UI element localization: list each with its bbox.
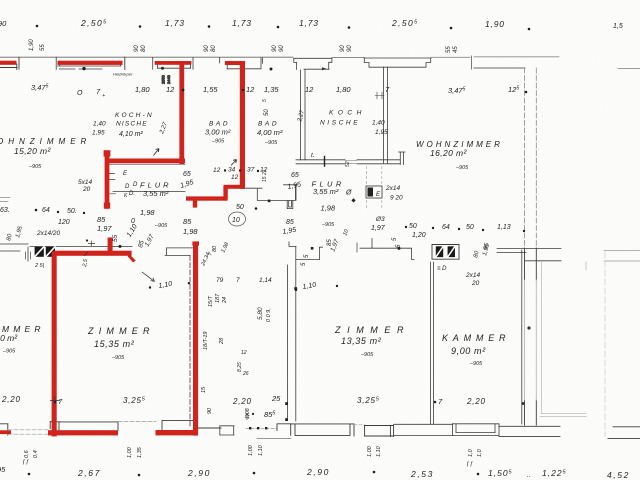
svg-text:55: 55	[40, 44, 46, 51]
small tick pair at 2,5 window	[84, 252, 88, 256]
svg-text:79: 79	[216, 277, 224, 284]
svg-text:1,73: 1,73	[232, 18, 252, 28]
svg-text:90: 90	[204, 45, 210, 52]
svg-text:KOCH-N: KOCH-N	[115, 112, 154, 119]
FLUR right top wall	[296, 160, 400, 164]
svg-text:15/T: 15/T	[208, 295, 214, 307]
svg-text:1,80: 1,80	[336, 85, 351, 94]
red FLUR left wall bottom blob	[104, 203, 110, 209]
red window bar W2	[58, 61, 123, 65]
bottom-left corner wall	[0, 424, 8, 435]
svg-text:85: 85	[327, 239, 333, 246]
small arrow tick above red step	[231, 160, 237, 166]
right vertical wall inner line	[535, 68, 537, 248]
svg-text:90: 90	[279, 45, 285, 52]
svg-text:85: 85	[183, 217, 192, 226]
window W6 dim tick	[375, 92, 384, 99]
svg-text:65: 65	[183, 171, 191, 178]
KAMMER door tick left	[356, 243, 358, 252]
svg-text:90: 90	[272, 45, 278, 52]
svg-text:90: 90	[340, 45, 346, 52]
svg-text:1,73: 1,73	[299, 18, 319, 28]
svg-text:187: 187	[215, 293, 221, 303]
svg-text:16,20 m²: 16,20 m²	[430, 148, 468, 158]
svg-text:2x14/20: 2x14/20	[36, 230, 61, 237]
red ZIMMER top wall	[54, 251, 132, 256]
svg-text:..: ..	[527, 472, 531, 479]
svg-text:–905: –905	[469, 361, 483, 367]
svg-text:1,98: 1,98	[140, 208, 155, 217]
svg-text:3,55 m²: 3,55 m²	[143, 189, 169, 198]
svg-text:D: D	[133, 182, 138, 188]
small window box	[220, 426, 234, 435]
svg-text:OHNZIMMER: OHNZIMMER	[0, 137, 91, 146]
svg-text:18/T-19: 18/T-19	[203, 332, 209, 350]
window W6	[364, 58, 431, 67]
svg-text:1,97: 1,97	[97, 224, 112, 233]
top dim dots	[36, 25, 39, 28]
svg-text:63.: 63.	[0, 207, 10, 214]
bottom door dashes with dots	[246, 427, 277, 429]
svg-text:4,10 m²: 4,10 m²	[119, 131, 143, 138]
red window bar W3	[155, 61, 192, 65]
svg-text:3,55 m²: 3,55 m²	[313, 187, 339, 196]
svg-text:NISCHE: NISCHE	[116, 121, 148, 128]
svg-text:1,5: 1,5	[613, 23, 623, 30]
window W2 sill dot	[82, 67, 85, 70]
svg-text:ɼ ɼ: ɼ ɼ	[466, 461, 474, 467]
FLUR right top wall opening line	[345, 161, 357, 164]
svg-text:–905: –905	[111, 355, 125, 361]
square dot near step	[311, 247, 314, 250]
svg-text:1,00: 1,00	[127, 446, 133, 458]
svg-text:15: 15	[201, 386, 207, 393]
window W3	[153, 57, 193, 69]
ZIMMER 15,35 door gap dashes	[118, 421, 156, 423]
bottom step to ZIMMER 13,35 window	[277, 424, 292, 431]
svg-text:1,95: 1,95	[375, 129, 388, 136]
red FLUR top wall	[105, 159, 185, 164]
svg-text:12: 12	[166, 85, 175, 94]
svg-text:50: 50	[264, 109, 270, 116]
wall between KOCHNISCHE right and WOHNZIMMER right	[384, 67, 388, 163]
dim 7 with dot	[54, 401, 57, 404]
svg-text:1,10: 1,10	[376, 445, 382, 457]
left edge wall pieces above ZIMMER	[0, 244, 28, 261]
red right wall of ZIMMER 15,35	[193, 242, 198, 436]
window W4	[220, 57, 263, 68]
niche bump below step	[287, 201, 293, 209]
svg-text:37: 37	[247, 167, 255, 174]
red step horizontal upper	[224, 185, 245, 189]
ZIMMER 15,35 window top line	[59, 422, 118, 431]
svg-text:52: 52	[345, 161, 351, 167]
svg-text:1,0: 1,0	[468, 448, 474, 457]
svg-text:,00 m²: ,00 m²	[0, 333, 18, 343]
square dot on wall	[268, 200, 271, 203]
svg-text:NISCHE: NISCHE	[320, 120, 360, 127]
svg-text:7: 7	[236, 277, 240, 284]
svg-text:90: 90	[207, 407, 213, 414]
svg-text:–905: –905	[211, 139, 225, 145]
FLUR left bottom wall with door opening	[113, 190, 185, 192]
svg-text:12: 12	[213, 167, 221, 174]
top exterior wall face line	[0, 56, 293, 58]
ZIMMER 15,35 window right part	[162, 421, 197, 430]
svg-text:85: 85	[97, 215, 106, 224]
dot	[182, 89, 185, 92]
KAMMER door jamb arrow dot	[398, 247, 401, 250]
svg-text:1,0: 1,0	[477, 448, 483, 457]
bottom double wall right of KAMMER window	[499, 426, 560, 436]
red tick at wall end	[128, 254, 136, 262]
door frame dashed lines	[367, 166, 382, 210]
black wall line beside red R17	[189, 255, 191, 428]
svg-text:Ø3: Ø3	[375, 216, 385, 223]
svg-text:2x14: 2x14	[385, 185, 400, 192]
svg-text:25: 25	[271, 394, 281, 403]
svg-text:9 20: 9 20	[390, 195, 403, 202]
window W3 sill dot	[161, 67, 164, 70]
svg-text:0,6: 0,6	[24, 449, 30, 458]
svg-text:1,13: 1,13	[497, 224, 511, 231]
svg-text:12: 12	[231, 174, 239, 181]
svg-text:1,08: 1,08	[245, 407, 251, 419]
svg-text:2,53: 2,53	[410, 469, 434, 479]
svg-text:50.: 50.	[67, 208, 77, 215]
wall gap hatch dot	[270, 68, 273, 71]
dim 12 b	[242, 89, 244, 91]
door mark E box	[366, 186, 382, 198]
red right wall top cap	[192, 241, 199, 245]
wall between BAD right and KOCHNISCHE right	[301, 70, 305, 160]
svg-text:50: 50	[236, 204, 244, 211]
svg-text:1,73: 1,73	[165, 18, 185, 28]
bottom-left window dashes	[8, 430, 48, 434]
ZIMMER 13,35 window	[291, 424, 355, 436]
svg-text:Heizkörper: Heizkörper	[113, 72, 133, 77]
outer face line below door	[257, 438, 291, 440]
red long left wall of ZIMMER 15,35	[52, 251, 57, 436]
svg-text:5,80: 5,80	[257, 307, 264, 320]
svg-text:2,20: 2,20	[1, 395, 21, 404]
KAMMER right wall	[521, 250, 523, 424]
window opening dashes	[354, 424, 364, 426]
svg-text:12: 12	[246, 85, 255, 94]
KAMMER door jamb wall	[360, 239, 414, 260]
svg-text:34: 34	[228, 167, 236, 174]
svg-text:24: 24	[222, 297, 228, 304]
svg-text:BAD: BAD	[209, 121, 230, 128]
red step horizontal lower	[186, 196, 228, 200]
door symbol left B	[46, 247, 55, 257]
svg-text:1,95: 1,95	[92, 130, 105, 137]
svg-text:ɼ ɼ: ɼ ɼ	[22, 459, 30, 465]
svg-text:–905: –905	[455, 165, 469, 171]
svg-text:–905: –905	[154, 223, 168, 229]
arrow dot on wall	[119, 245, 122, 248]
svg-text:90: 90	[0, 19, 7, 28]
svg-text:1,14: 1,14	[259, 277, 272, 284]
svg-text:1,40: 1,40	[93, 121, 106, 128]
svg-text:64: 64	[42, 207, 50, 214]
svg-text:1,90: 1,90	[485, 19, 505, 29]
svg-text:Ø: Ø	[345, 190, 352, 197]
svg-text:85: 85	[286, 219, 294, 226]
svg-text:1,20: 1,20	[412, 232, 426, 239]
red wall A vertical (KOCHNISCHE/BAD)	[179, 61, 184, 164]
svg-text:1,00: 1,00	[248, 444, 254, 456]
svg-text:12: 12	[305, 85, 314, 94]
svg-text:1,98: 1,98	[321, 204, 336, 213]
bottom wall lines to KAMMER window	[394, 424, 452, 435]
corridor steps top	[289, 242, 323, 260]
FLUR left top wall under red	[106, 164, 185, 166]
svg-text:2x14: 2x14	[465, 272, 480, 279]
right vertical wall outer line	[524, 68, 526, 248]
svg-text:ZIMMER: ZIMMER	[334, 325, 410, 335]
second window segment	[364, 425, 393, 437]
svg-text:–905: –905	[321, 222, 335, 228]
svg-text:1,98: 1,98	[183, 227, 198, 236]
red FLUR left wall top blob	[104, 150, 111, 156]
top wall face line right faint	[431, 56, 559, 59]
svg-text:55: 55	[112, 234, 119, 242]
svg-text:15,20 m²: 15,20 m²	[14, 146, 52, 156]
left edge mid hatch	[0, 198, 10, 202]
svg-text:0 0 9,: 0 0 9,	[266, 308, 272, 322]
red wall B vertical (BAD/BAD)	[240, 61, 245, 189]
right lower vertical faint	[604, 252, 606, 436]
KAMMER door box hatch A	[436, 246, 443, 257]
top-right wall corner	[472, 56, 526, 69]
svg-text:20: 20	[82, 186, 91, 193]
interior wall above ZIMMER 15,35	[30, 245, 132, 247]
KAMMER left wall	[431, 262, 434, 424]
red step stub down	[193, 199, 197, 208]
svg-text:26: 26	[242, 371, 249, 377]
svg-text:2440: 2440	[166, 74, 171, 84]
KAMMER window	[452, 424, 499, 436]
tick on FLUR right wall	[324, 157, 326, 167]
svg-text:D.: D.	[129, 191, 135, 197]
FLUR left door swing ticks	[110, 174, 116, 194]
door jamb ticks left	[26, 252, 31, 259]
svg-text:2 5|: 2 5|	[34, 263, 45, 269]
small arrow tick in flur top	[154, 149, 160, 156]
window W5 inner arrow dot	[322, 67, 327, 70]
window W5	[294, 58, 332, 69]
svg-text:28: 28	[219, 337, 225, 345]
svg-text:15 21: 15 21	[262, 169, 268, 182]
wall right of red B to step	[245, 185, 297, 201]
svg-text:KAMMER: KAMMER	[442, 333, 510, 343]
svg-text:D: D	[125, 184, 130, 190]
svg-text:1,10: 1,10	[258, 444, 264, 456]
right vertical wall lower solid	[525, 248, 537, 425]
svg-text:80: 80	[211, 45, 217, 52]
svg-text:2,67: 2,67	[77, 468, 101, 478]
svg-text:1,90: 1,90	[29, 39, 35, 51]
svg-text:120: 120	[58, 219, 70, 226]
FLUR right wall end bracket	[399, 152, 406, 165]
tick cross small	[88, 241, 95, 247]
svg-text:2,90: 2,90	[187, 468, 211, 478]
KAMMER door box	[432, 245, 459, 260]
svg-text:20: 20	[471, 280, 480, 287]
KAMMER right wall dot	[522, 402, 525, 405]
bottom right wall pieces	[608, 427, 640, 439]
red window bar W4	[225, 61, 244, 65]
plus tick on red left wall	[50, 397, 60, 405]
red FLUR left wall	[105, 151, 110, 209]
svg-text:2550: 2550	[161, 74, 166, 84]
svg-text:1,35: 1,35	[264, 85, 279, 94]
svg-text:–905: –905	[264, 140, 278, 146]
KAMMER door box hatch B	[448, 246, 455, 257]
red window bar W1	[0, 61, 17, 65]
window W2	[56, 57, 121, 69]
svg-text:1,80: 1,80	[135, 85, 150, 94]
window W1	[0, 57, 19, 69]
svg-text:O: O	[77, 90, 83, 97]
right stair room box	[540, 262, 586, 417]
red step vertical	[223, 186, 227, 199]
svg-text:90: 90	[134, 45, 140, 52]
red bottom sill left	[48, 430, 118, 435]
corridor wall second line	[286, 265, 288, 419]
svg-text:55: 55	[446, 46, 452, 53]
svg-text:–905: –905	[2, 349, 16, 355]
step wall left of ZIMMER right wall	[165, 248, 194, 256]
svg-text:9,00 m²: 9,00 m²	[451, 346, 486, 356]
svg-text:2,20: 2,20	[466, 397, 486, 406]
svg-text:80: 80	[212, 245, 218, 252]
svg-text:45: 45	[453, 46, 459, 53]
svg-text:2,20: 2,20	[232, 397, 252, 406]
svg-text:2,90: 2,90	[306, 467, 330, 477]
svg-text:65: 65	[291, 172, 299, 179]
svg-text:1,35: 1,35	[137, 446, 143, 458]
svg-text:ZIMMER: ZIMMER	[87, 326, 155, 336]
svg-text:10: 10	[232, 217, 240, 224]
svg-text:3,00 m²: 3,00 m²	[205, 128, 231, 137]
svg-text:t.: t.	[311, 152, 315, 159]
svg-text:≡ D: ≡ D	[437, 266, 447, 272]
dim 7 kammer	[434, 401, 437, 404]
svg-text:90: 90	[347, 45, 353, 52]
bottom-left step	[50, 421, 60, 428]
corridor wall vertical	[295, 260, 297, 421]
svg-text:12: 12	[241, 350, 247, 356]
svg-text:15,35 m²: 15,35 m²	[94, 339, 135, 349]
svg-text:4,00 m²: 4,00 m²	[257, 128, 283, 137]
svg-text:50: 50	[409, 223, 417, 230]
svg-text:13,35 m²: 13,35 m²	[341, 336, 382, 346]
svg-text:–905: –905	[28, 164, 42, 170]
svg-text:BAD: BAD	[258, 121, 279, 128]
red bottom left edge piece	[0, 430, 11, 434]
svg-text:KOCH: KOCH	[329, 110, 366, 117]
far right top edge dash	[618, 68, 640, 70]
svg-text:50: 50	[466, 224, 474, 231]
svg-text:64: 64	[442, 224, 450, 231]
svg-text:4,52: 4,52	[607, 470, 630, 480]
svg-text:1,00: 1,00	[367, 445, 373, 457]
svg-text:80: 80	[141, 45, 147, 52]
bottom wall right of R17	[198, 427, 221, 429]
wall right middle horizontals	[497, 249, 561, 261]
door symbol left A	[35, 247, 44, 257]
svg-text:0,4: 0,4	[33, 450, 39, 458]
corridor wall dots	[294, 287, 297, 290]
svg-text:1,55: 1,55	[203, 85, 218, 94]
svg-text:5: 5	[262, 99, 268, 102]
svg-text:95: 95	[0, 465, 6, 474]
red bottom sill right	[156, 430, 198, 435]
red door stub at FLUR bottom left	[108, 238, 113, 255]
svg-text:1,40: 1,40	[372, 120, 385, 127]
svg-text:–905: –905	[360, 352, 374, 358]
small up arrows near 85-5	[246, 413, 249, 420]
svg-text:5x14: 5x14	[78, 179, 92, 186]
svg-text:1,97: 1,97	[371, 225, 386, 232]
